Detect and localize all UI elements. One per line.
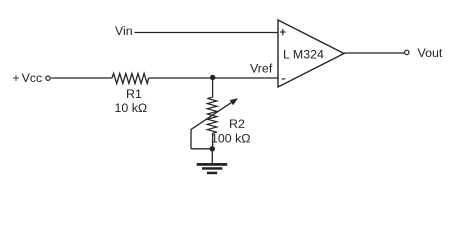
svg-text:+ Vcc: + Vcc bbox=[12, 71, 42, 85]
wire node down to R2 bbox=[212, 78, 214, 98]
junction node dot top of R2 bbox=[210, 75, 215, 80]
potentiometer R2 zigzag bbox=[207, 97, 217, 133]
wire Vin to op-amp + input bbox=[135, 32, 279, 34]
terminal Vout open circle bbox=[405, 50, 409, 54]
wire R1 to node and op-amp - input bbox=[149, 77, 278, 79]
potentiometer R2 wiper arrowhead bbox=[230, 98, 238, 105]
junction node dot bottom of R2 bbox=[210, 146, 215, 151]
potentiometer R2 wiper arrow shaft bbox=[191, 102, 233, 130]
ground bar 3 bbox=[207, 172, 217, 175]
pin - (inverting input) bbox=[282, 78, 286, 80]
svg-text:R2: R2 bbox=[229, 117, 245, 131]
wire R2 bottom to node bbox=[212, 133, 214, 149]
svg-text:10 kΩ: 10 kΩ bbox=[115, 101, 148, 115]
svg-text:R1: R1 bbox=[126, 87, 142, 101]
svg-text:Vref: Vref bbox=[250, 61, 273, 75]
wire wiper bracket vertical bbox=[190, 129, 192, 149]
op-amp U1 LM324 triangle bbox=[278, 20, 344, 87]
ground bar 2 bbox=[202, 167, 222, 170]
svg-text:L M324: L M324 bbox=[283, 48, 324, 62]
wire node to ground bbox=[211, 149, 213, 163]
ground bar 1 bbox=[197, 163, 228, 166]
terminal +Vcc open circle bbox=[46, 76, 50, 80]
pin + (non-inverting input) bbox=[280, 29, 285, 35]
wire Vcc to R1 bbox=[51, 77, 112, 79]
svg-text:100 kΩ: 100 kΩ bbox=[211, 132, 251, 146]
svg-text:Vout: Vout bbox=[418, 46, 443, 60]
wire wiper bracket horizontal bbox=[191, 148, 213, 150]
resistor R1 bbox=[112, 74, 149, 84]
wire op-amp output bbox=[344, 52, 405, 54]
svg-text:Vin: Vin bbox=[115, 24, 133, 38]
